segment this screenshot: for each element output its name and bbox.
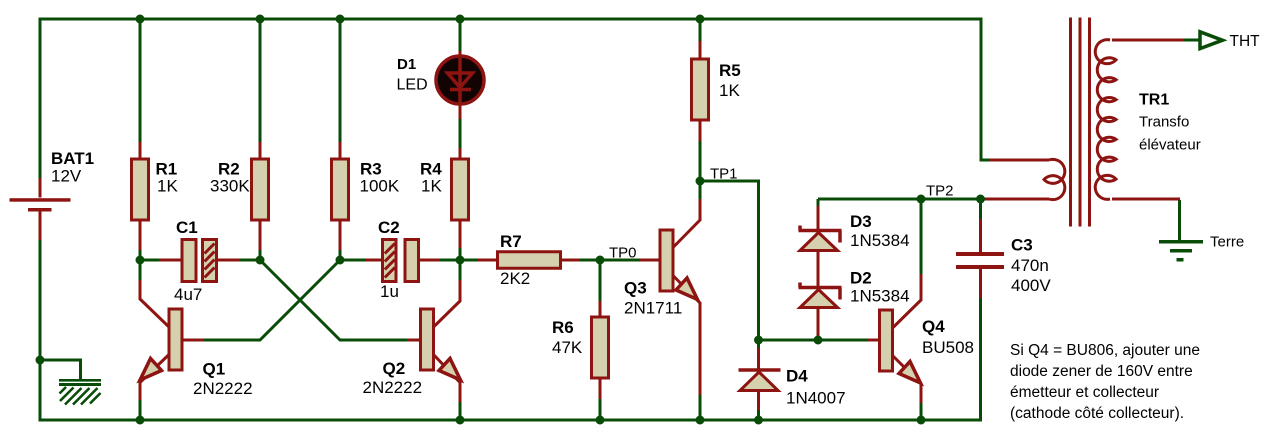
svg-text:C3: C3: [1011, 236, 1033, 255]
node bottom D4: [754, 416, 763, 425]
resistor R4 1K: [420, 148, 469, 248]
wire cross diagonal C2-node to Q1 base: [204, 260, 340, 340]
svg-text:R6: R6: [552, 318, 574, 337]
node TP0: [596, 256, 605, 265]
svg-text:TR1: TR1: [1139, 92, 1169, 109]
diode D3 1N5384 zener: [799, 206, 910, 286]
resistor R6 47K: [552, 301, 609, 399]
node chassis branch: [36, 356, 45, 365]
node junction dots: [36, 15, 986, 425]
node TP1: [696, 177, 705, 186]
node R4/C2/R7: [456, 256, 465, 265]
svg-text:4u7: 4u7: [174, 285, 202, 304]
svg-text:2K2: 2K2: [500, 269, 530, 288]
svg-text:diode zener de 160V entre: diode zener de 160V entre: [1010, 363, 1193, 380]
svg-text:1K: 1K: [421, 177, 442, 196]
wire R2 top: [259, 21, 262, 143]
wire Q3 emitter bottom: [699, 394, 702, 420]
svg-text:TP1: TP1: [710, 166, 738, 183]
resistor R1 1K: [132, 142, 179, 250]
node bottom Q1: [136, 416, 145, 425]
svg-text:D4: D4: [786, 367, 808, 386]
svg-text:400V: 400V: [1011, 276, 1051, 295]
svg-text:Transfo: Transfo: [1139, 114, 1189, 131]
svg-text:D1: D1: [397, 56, 416, 73]
wire R1 bottom to node: [139, 249, 142, 262]
transistor Q4 BU508: [868, 274, 974, 403]
node top rail R2: [256, 15, 265, 24]
svg-text:(cathode côté collecteur).: (cathode côté collecteur).: [1010, 405, 1184, 422]
node C3/primary: [976, 195, 985, 204]
wire R5 bottom to TP1: [699, 141, 702, 180]
node D2/Q4 base: [814, 336, 823, 345]
transistor Q1 2N2222: [140, 280, 253, 400]
node R2/C1: [256, 256, 265, 265]
earth ground Terre: [1159, 234, 1244, 262]
wire chassis ground branch: [40, 360, 81, 380]
svg-text:100K: 100K: [360, 177, 400, 196]
svg-text:THT: THT: [1230, 33, 1261, 50]
wire C2 right to node: [439, 259, 458, 262]
node D4 anode row: [754, 336, 763, 345]
node R3/C2: [336, 256, 345, 265]
diode D2 1N5384 zener: [799, 269, 910, 341]
svg-text:TP0: TP0: [609, 245, 637, 262]
resistor R3 100K: [332, 142, 400, 250]
svg-text:R5: R5: [719, 61, 741, 80]
wire top supply rail: [39, 18, 983, 21]
wire Q1 emitter bottom: [139, 399, 142, 420]
node bottom Q3: [696, 416, 705, 425]
wire R4 bottom: [459, 247, 462, 261]
svg-text:1K: 1K: [157, 177, 178, 196]
svg-text:2N1711: 2N1711: [624, 299, 682, 318]
svg-text:LED: LED: [397, 77, 428, 94]
wire Terre drop: [1178, 200, 1181, 240]
svg-text:12V: 12V: [51, 167, 82, 186]
node R1/C1: [136, 256, 145, 265]
node bottom Q2: [456, 416, 465, 425]
wire left rail upper (battery +): [39, 18, 42, 179]
svg-text:R7: R7: [500, 232, 522, 251]
svg-text:élévateur: élévateur: [1139, 137, 1201, 154]
LED D1: [397, 51, 485, 119]
node TP2: [917, 195, 926, 204]
wire THT green segment: [1183, 39, 1200, 42]
wire R1 top: [139, 21, 142, 143]
svg-text:émetteur et collecteur: émetteur et collecteur: [1010, 384, 1159, 401]
svg-text:2N2222: 2N2222: [193, 379, 253, 398]
svg-text:1K: 1K: [719, 81, 740, 100]
svg-text:C2: C2: [378, 218, 400, 237]
wire C3 bottom to ground rail: [979, 298, 982, 421]
wire C3 top stub: [979, 200, 982, 219]
resistor R2 330K: [210, 142, 269, 250]
wire R2 bottom: [259, 249, 262, 261]
transformer TR1 secondary winding: [1095, 40, 1200, 200]
wire right drop to transformer primary top: [981, 18, 991, 161]
wire cross diagonal C1-node to Q2 base: [260, 260, 407, 340]
transformer TR1 core: [1071, 18, 1090, 227]
wire node to R7 left: [461, 259, 478, 262]
wire node to Q1 collector: [139, 260, 142, 281]
wire node to C1 left: [141, 259, 159, 262]
svg-text:D3: D3: [850, 212, 872, 231]
wire D4 bottom: [757, 409, 760, 420]
capacitor C3 470n 400V: [956, 219, 1051, 298]
wire Q2 collector to node: [459, 261, 462, 281]
wire bottom ground rail: [39, 419, 983, 422]
wire node to C2 left: [341, 259, 366, 262]
wire left rail lower (battery -): [39, 240, 42, 421]
wire TP1 to Q3 collector: [699, 182, 702, 200]
svg-text:1N4007: 1N4007: [786, 389, 846, 408]
node top rail R5: [696, 15, 705, 24]
svg-text:TP2: TP2: [926, 183, 954, 200]
wire Q4 collector up to TP2: [920, 200, 923, 275]
node top rail R1: [136, 15, 145, 24]
wire D1 top: [459, 21, 462, 52]
node top rail R3: [336, 15, 345, 24]
svg-text:Q4: Q4: [922, 317, 945, 336]
capacitor C1 4u7: [159, 218, 240, 304]
wire D4 node row to Q4 base: [759, 339, 869, 342]
svg-text:BU508: BU508: [922, 338, 974, 357]
svg-text:47K: 47K: [552, 338, 583, 357]
wire TP1 row to right drop: [701, 181, 759, 340]
resistor R7 2K2: [478, 232, 580, 288]
diode D4 1N4007: [739, 348, 846, 410]
node top rail D1: [456, 15, 465, 24]
wire TP2 corner down stub: [817, 199, 820, 207]
THT output arrow: [1200, 32, 1260, 50]
svg-text:1u: 1u: [380, 282, 399, 301]
svg-text:Q1: Q1: [203, 360, 226, 379]
battery BAT1 12V: [10, 149, 95, 240]
svg-text:C1: C1: [176, 218, 198, 237]
wire R3 top: [339, 21, 342, 143]
resistor R5 1K: [692, 41, 741, 141]
svg-text:1N5384: 1N5384: [850, 231, 910, 250]
wire C1 right to node: [239, 259, 258, 262]
wire TP0 node to R6 top: [599, 261, 602, 301]
wire D1 to R4: [459, 119, 462, 148]
svg-text:1N5384: 1N5384: [850, 287, 910, 306]
svg-text:Q2: Q2: [383, 359, 406, 378]
wire R5 top: [699, 21, 702, 42]
wire R7 right to TP0 node: [580, 259, 598, 262]
transformer TR1 primary winding: [981, 159, 1065, 199]
svg-text:Si Q4 = BU806, ajouter une: Si Q4 = BU806, ajouter une: [1010, 342, 1200, 359]
chassis ground (hatched): [59, 379, 101, 405]
capacitor C2 1u: [366, 218, 440, 301]
transistor Q3 2N1711: [624, 199, 700, 395]
wire TP0 node to Q3 base: [601, 259, 641, 262]
svg-text:470n: 470n: [1011, 256, 1049, 275]
node bottom R6: [596, 416, 605, 425]
svg-text:330K: 330K: [210, 177, 250, 196]
svg-text:Q3: Q3: [624, 279, 647, 298]
wire TP2 row: [818, 198, 981, 201]
transistor Q2 2N2222: [363, 280, 461, 402]
wire Q2 emitter bottom: [459, 401, 462, 420]
node bottom Q4: [917, 416, 926, 425]
svg-text:Terre: Terre: [1210, 234, 1244, 251]
wire D4 top stub: [757, 341, 760, 348]
note text: [1010, 342, 1200, 422]
wire R3 bottom: [339, 249, 342, 261]
svg-text:D2: D2: [850, 269, 872, 288]
wire Q4 emitter bottom: [920, 402, 923, 420]
wire R6 bottom: [599, 398, 602, 420]
svg-text:2N2222: 2N2222: [363, 378, 423, 397]
svg-text:BAT1: BAT1: [51, 149, 94, 168]
